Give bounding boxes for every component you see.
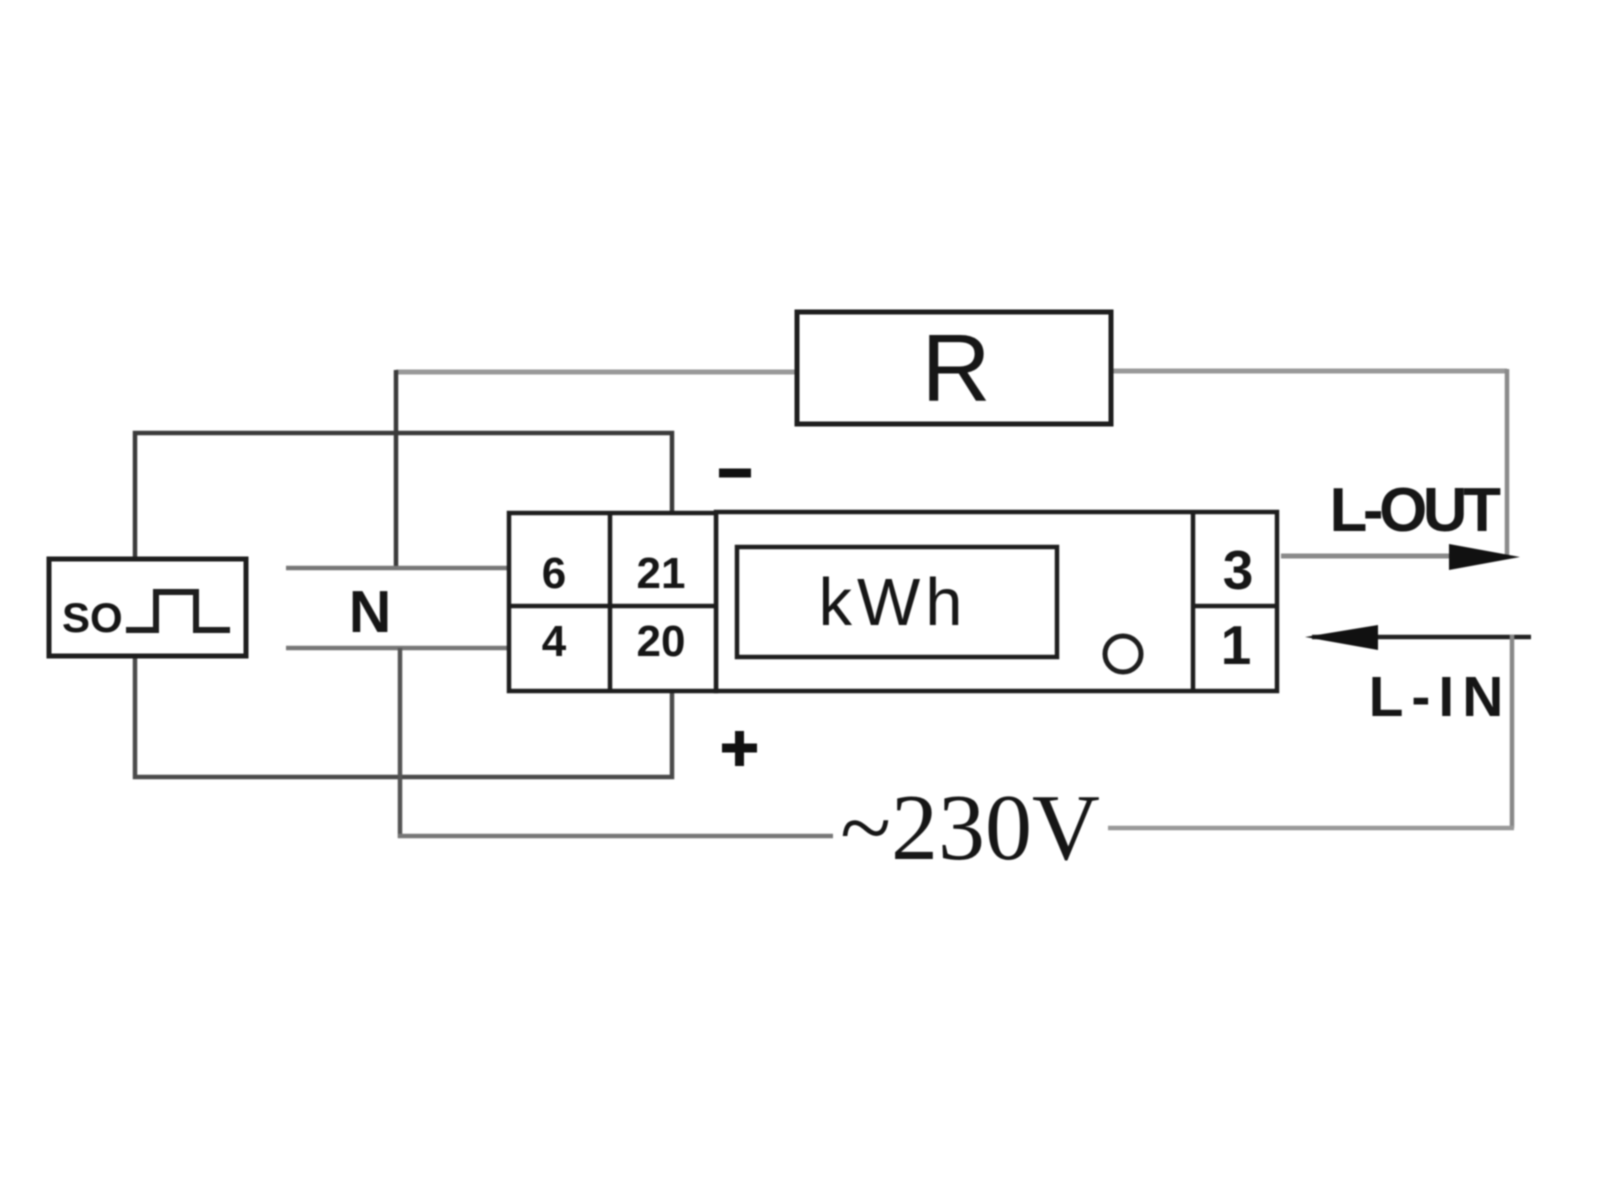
wire R right vertical down to L-OUT xyxy=(1505,369,1510,556)
L-OUT arrow xyxy=(1449,544,1520,570)
S0 pulse symbol xyxy=(126,592,230,630)
wire R left vertical down to N node xyxy=(394,370,399,570)
svg-text:SO: SO xyxy=(62,594,123,641)
L-IN arrow xyxy=(1305,625,1378,650)
wire R right horizontal xyxy=(1109,369,1507,374)
svg-text:N: N xyxy=(349,579,392,645)
svg-text:R: R xyxy=(921,315,990,422)
svg-text:kWh: kWh xyxy=(819,565,968,640)
pulse output S0 xyxy=(49,559,246,656)
wire 230V right xyxy=(1108,826,1514,831)
polarity minus for S0 output xyxy=(719,469,751,478)
wire L-OUT xyxy=(1281,554,1455,559)
svg-text:L-IN: L-IN xyxy=(1369,665,1512,729)
wire 230V left xyxy=(398,834,833,839)
wire S0 top loop xyxy=(135,433,672,561)
svg-text:1: 1 xyxy=(1221,614,1252,676)
wire N stub to terminal 6 xyxy=(286,566,511,571)
wire L-IN vertical from source xyxy=(1510,635,1515,828)
energy meter body xyxy=(716,512,1277,691)
svg-text:6: 6 xyxy=(542,549,566,598)
terminal block 6 21 4 20 xyxy=(509,513,716,691)
indicator LED xyxy=(1105,636,1141,672)
wire N down to 230V source xyxy=(398,648,403,838)
polarity plus for S0 output xyxy=(722,731,757,766)
wire L-IN xyxy=(1312,635,1531,640)
svg-text:3: 3 xyxy=(1223,539,1254,601)
terminal cells 3 and 1 xyxy=(1193,512,1277,691)
svg-text:L-OUT: L-OUT xyxy=(1330,476,1502,545)
resistor R xyxy=(797,312,1111,424)
svg-text:20: 20 xyxy=(637,617,686,666)
wire N stub to terminal 4 xyxy=(286,646,511,651)
svg-text:21: 21 xyxy=(637,549,686,598)
wire S0 bottom loop xyxy=(135,653,672,777)
svg-text:~230V: ~230V xyxy=(840,776,1100,880)
wire R left horizontal xyxy=(396,370,799,375)
svg-text:4: 4 xyxy=(542,617,567,666)
kWh display xyxy=(737,547,1057,657)
